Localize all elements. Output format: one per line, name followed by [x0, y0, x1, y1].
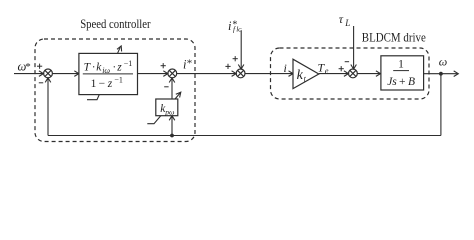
svg-text:−: −: [99, 78, 106, 90]
wire: omega* input: [14, 73, 43, 75]
adaptation arrow through kpw block: [147, 93, 180, 124]
block PI: T*kiw*z^-1 / (1 - z^-1): [79, 53, 138, 94]
block kpw: [156, 99, 178, 116]
svg-text:*: *: [25, 61, 31, 73]
svg-text:τ: τ: [339, 12, 344, 26]
svg-text:z: z: [116, 61, 122, 73]
dashed box BLDCM drive: [271, 48, 430, 99]
svg-text:B: B: [408, 76, 415, 88]
svg-text:1: 1: [91, 78, 97, 90]
svg-text:−1: −1: [114, 76, 123, 85]
svg-text:k: k: [297, 68, 304, 83]
sign - at S4: [345, 61, 349, 63]
sign + top at S3: [233, 56, 238, 61]
sign + at S4: [339, 66, 344, 71]
wire PI block to S2: [138, 73, 168, 75]
svg-text:·: ·: [92, 61, 96, 73]
svg-text:pω: pω: [164, 108, 175, 117]
svg-text:Js: Js: [387, 76, 397, 88]
wire S1 to PI block: [52, 73, 78, 75]
sign + at S2: [161, 63, 166, 68]
junction dot at kpw branch: [170, 134, 174, 138]
svg-text:z: z: [107, 78, 113, 90]
wire tau_L down into S4: [353, 26, 355, 69]
feedback wire: right vertical: [440, 74, 442, 136]
svg-text:ω: ω: [439, 55, 447, 69]
summing junction S4: [349, 69, 358, 78]
wire i*flc down into S3: [240, 30, 242, 68]
svg-text:Speed controller: Speed controller: [80, 16, 151, 31]
svg-text:−1: −1: [124, 59, 133, 68]
wire output omega: [424, 73, 458, 75]
wire kpw to S2: [171, 78, 173, 99]
dashed box Speed controller: [35, 39, 195, 142]
sign + left at S3: [225, 64, 230, 69]
svg-text:L: L: [344, 18, 350, 28]
summing junction S2: [168, 69, 177, 78]
sign + at S1: [37, 64, 42, 69]
amplifier kt (gain triangle): [293, 59, 319, 88]
wire up into kpw block: [171, 116, 173, 135]
fraction bar JsB: [393, 70, 409, 72]
svg-text:*: *: [187, 57, 193, 69]
wire S3 to amplifier kt: [245, 73, 293, 75]
svg-text:+: +: [399, 76, 406, 88]
svg-text:i: i: [284, 61, 287, 75]
summing junction S1: [44, 69, 53, 78]
svg-text:i: i: [228, 19, 232, 33]
fraction bar PI: [83, 73, 133, 75]
svg-text:·: ·: [112, 61, 116, 73]
wire S4 to inertia block: [357, 73, 380, 75]
sign - at S2: [164, 86, 168, 88]
feedback wire: left vertical into S1: [47, 78, 49, 135]
svg-text:1: 1: [398, 58, 404, 70]
wire kt to S4: [319, 73, 348, 75]
summing junction S3: [236, 69, 245, 78]
block 1/(Js+B): [381, 56, 424, 90]
feedback wire: bottom horizontal: [48, 135, 441, 137]
wire S2 to S3: [177, 73, 236, 75]
junction dot at output branch: [439, 72, 443, 76]
svg-text:BLDCM drive: BLDCM drive: [362, 30, 426, 45]
sign - at S1: [39, 82, 43, 84]
adaptation arrow through PI block: [87, 47, 120, 99]
